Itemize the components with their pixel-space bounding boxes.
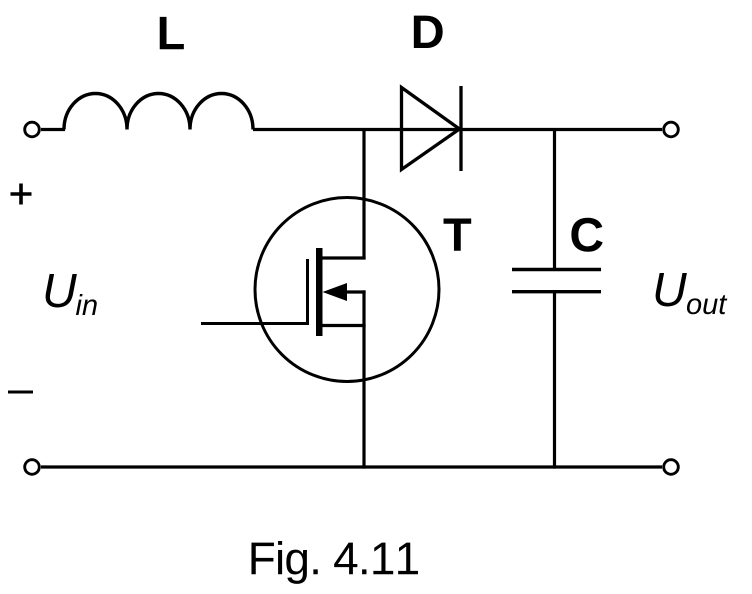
transistor T gate lead wire xyxy=(201,322,309,325)
caption Fig. 4.11 xyxy=(251,541,418,584)
label C xyxy=(571,218,602,252)
transistor T body arrow line xyxy=(340,290,366,293)
transistor T channel bar xyxy=(316,248,323,336)
transistor T source contact horizontal xyxy=(317,324,366,327)
wire capacitor top lead xyxy=(553,130,556,270)
wire top rail left segment (input terminal to inductor) xyxy=(41,128,65,131)
terminal input + (top-left open circle) xyxy=(25,122,40,137)
terminal input - (bottom-left open circle) xyxy=(25,460,40,475)
transistor T body arrowhead xyxy=(323,283,348,301)
capacitor C bottom plate xyxy=(512,290,601,293)
wire top rail middle segment (inductor to output terminal, through diode) xyxy=(253,128,662,131)
transistor T drain contact horizontal xyxy=(317,256,366,259)
wire bottom rail xyxy=(41,465,662,468)
diode D cathode bar xyxy=(459,86,462,171)
label Uin xyxy=(46,274,97,315)
diode D anode triangle xyxy=(402,88,460,170)
transistor T MOSFET body circle xyxy=(255,198,439,382)
inductor L (three humps) xyxy=(64,94,253,130)
transistor T gate electrode vertical xyxy=(306,259,309,325)
terminal output - (bottom-right open circle) xyxy=(664,460,679,475)
label D xyxy=(414,16,443,48)
label plus sign xyxy=(11,184,32,205)
label minus sign xyxy=(8,391,33,394)
wire drain vertical (top rail down to MOSFET drain) xyxy=(362,130,365,260)
terminal output + (top-right open circle) xyxy=(664,122,679,137)
capacitor C top plate xyxy=(512,268,601,271)
label T xyxy=(444,218,472,250)
label L xyxy=(160,17,184,49)
wire capacitor bottom lead xyxy=(553,292,556,469)
label Uout xyxy=(656,273,728,314)
wire source vertical (arrow/source down to bottom rail) xyxy=(362,290,365,468)
